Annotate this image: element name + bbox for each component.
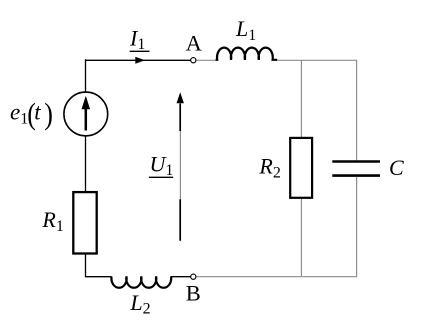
- inductor L2: [111, 277, 171, 288]
- wire R2 bottom to bottom wire: [300, 199, 302, 277]
- voltage arrow U1 shaft black bottom: [179, 199, 181, 241]
- svg-text:U1: U1: [150, 152, 174, 180]
- wire junction down to R2 top: [300, 60, 302, 137]
- wire top: left corner to node A (black): [86, 59, 191, 277]
- svg-text:I1: I1: [129, 26, 145, 54]
- wire node A to L1: [196, 59, 216, 61]
- wire L1 to top-right corner: [277, 59, 357, 61]
- wire left branch: top corner down to source top: [85, 59, 87, 92]
- voltage arrowhead U1: [177, 92, 184, 103]
- source arrow: [85, 109, 88, 131]
- svg-text:C: C: [389, 155, 404, 180]
- resistor R2: [290, 138, 312, 198]
- svg-text:A: A: [186, 30, 203, 55]
- current arrowhead I1 on top wire: [135, 57, 145, 64]
- wire source bottom to R1 top: [85, 136, 87, 193]
- voltage arrow U1 shaft black top: [179, 104, 181, 132]
- voltage arrow U1 shaft gray middle: [179, 131, 181, 199]
- svg-text:t: t: [34, 99, 41, 124]
- inductor L1: [216, 48, 278, 60]
- wire node B to bottom-right corner: [196, 276, 357, 278]
- resistor R1: [73, 192, 96, 253]
- node A: [191, 58, 196, 63]
- svg-text:R1: R1: [41, 207, 63, 235]
- source e1(t) circle: [64, 92, 108, 136]
- svg-text:B: B: [186, 281, 201, 306]
- svg-text:L2: L2: [129, 290, 150, 318]
- capacitor C plates: [332, 160, 380, 163]
- wire R1 bottom to bottom-left corner to L2 start: [86, 254, 112, 277]
- wire capacitor bottom plate to bottom-right corner: [356, 177, 358, 277]
- svg-text:e: e: [10, 99, 20, 124]
- node B: [191, 274, 196, 279]
- gray connecting wires: [196, 60, 357, 277]
- svg-text:): ): [44, 98, 53, 131]
- wire L2 end to node B: [171, 276, 191, 278]
- svg-text:R2: R2: [258, 154, 280, 182]
- svg-text:L1: L1: [235, 16, 256, 44]
- wire top-right corner down to capacitor top plate: [356, 60, 358, 160]
